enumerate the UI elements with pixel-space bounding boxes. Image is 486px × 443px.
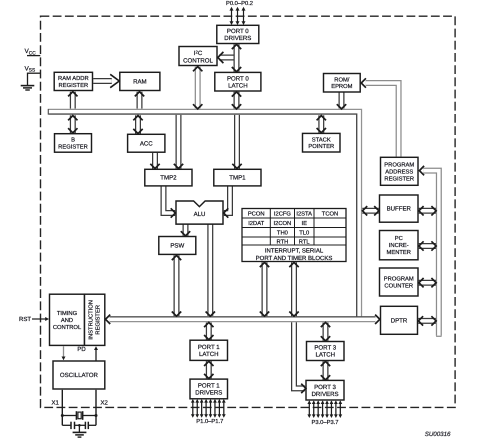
arrow: bus 1 to B REGISTER (double-headed) bbox=[70, 115, 76, 133]
svg-text:TH0: TH0 bbox=[277, 230, 288, 237]
junction dot at capacitor midpoint bbox=[78, 424, 81, 427]
svg-text:PORT 1LATCH: PORT 1LATCH bbox=[198, 344, 220, 358]
svg-text:PORT 3DRIVERS: PORT 3DRIVERS bbox=[311, 384, 338, 398]
svg-text:I2STA: I2STA bbox=[296, 211, 312, 218]
arrow: bus 2 to PORT 3 LATCH (double-headed) bbox=[323, 323, 329, 341]
svg-text:I2CON: I2CON bbox=[274, 220, 292, 227]
wire: bus 2 to PORT 3 DRIVERS (elbow) bbox=[294, 322, 305, 388]
svg-text:X2: X2 bbox=[101, 399, 109, 406]
svg-text:BUFFER: BUFFER bbox=[387, 206, 412, 213]
svg-text:PCON: PCON bbox=[248, 211, 265, 218]
svg-text:ALU: ALU bbox=[194, 211, 206, 218]
svg-text:TMP2: TMP2 bbox=[160, 175, 177, 182]
block: PC INCREMENTER bbox=[380, 231, 419, 260]
block: PROGRAM COUNTER bbox=[380, 268, 419, 296]
svg-text:I2C: I2C bbox=[194, 50, 203, 58]
block: PORT 1 DRIVERS bbox=[190, 379, 228, 399]
arrow: DPTR to right bus (double-headed) bbox=[418, 318, 436, 324]
block: I2C CONTROL U-I2C bbox=[179, 47, 217, 66]
wire: VCC to border bbox=[27, 55, 40, 57]
svg-text:PSW: PSW bbox=[170, 243, 184, 250]
wire: ALU to bus 2 bbox=[207, 225, 213, 316]
svg-text:RST: RST bbox=[19, 316, 31, 323]
svg-text:INTERRUPT, SERIAL: INTERRUPT, SERIAL bbox=[265, 248, 324, 255]
block: RAM ADDR REGISTER bbox=[54, 72, 92, 90]
wire: bus 1 to TMP2 bbox=[176, 115, 182, 169]
svg-text:PORT 1DRIVERS: PORT 1DRIVERS bbox=[195, 383, 222, 397]
svg-text:P0.0–P0.2: P0.0–P0.2 bbox=[226, 0, 253, 7]
wire: lower horizontal data bus 2 bbox=[110, 316, 376, 322]
arrow: BUFFER to left vertical bus (double-headed) bbox=[362, 208, 379, 214]
arrow: RAM to bus 1 bbox=[137, 92, 143, 109]
svg-text:TCON: TCON bbox=[322, 211, 338, 218]
svg-text:I2CFG: I2CFG bbox=[274, 211, 292, 218]
chip boundary (dashed border) bbox=[41, 16, 456, 407]
arrow: PROGRAM COUNTER to right bus (double-headed) bbox=[419, 280, 436, 286]
svg-text:PORT 3LATCH: PORT 3LATCH bbox=[314, 345, 336, 359]
svg-text:PORT AND TIMER BLOCKS: PORT AND TIMER BLOCKS bbox=[256, 255, 333, 262]
arrow: ROM/EPROM to bus 1 bbox=[339, 93, 345, 109]
svg-text:TMP1: TMP1 bbox=[229, 175, 246, 182]
arrow: bus 1 to STACK POINTER (double-headed) bbox=[318, 115, 324, 133]
block: TIMING AND CONTROL bbox=[50, 294, 85, 345]
wire: OSCILLATOR to INSTRUCTION REGISTER (PD) bbox=[95, 349, 97, 362]
arrow: BUFFER to right bus (double-headed) bbox=[419, 208, 436, 214]
svg-text:RAM: RAM bbox=[133, 79, 147, 86]
arrow: bus 1 to ACC (double-headed) bbox=[135, 115, 141, 134]
block: PROGRAM ADDRESS REGISTER bbox=[381, 157, 419, 185]
svg-text:IE: IE bbox=[301, 221, 307, 227]
capacitor C1 (left) bbox=[62, 424, 70, 426]
wire: bus 1 to TMP1 bbox=[234, 115, 240, 169]
wire: TIMING AND CONTROL to OSCILLATOR bbox=[63, 346, 65, 357]
arrow: I2C CONTROL to bus 1 (vertical, double-headed) bbox=[195, 67, 201, 109]
arrow: SFR block to bus 2 (right, double-headed) bbox=[291, 262, 297, 316]
svg-text:DPTR: DPTR bbox=[391, 317, 408, 324]
svg-text:PROGRAMADDRESSREGISTER: PROGRAMADDRESSREGISTER bbox=[384, 161, 414, 182]
wire: VSS to border and down to ground bbox=[28, 72, 41, 74]
wire: RST into TIMING AND CONTROL bbox=[32, 318, 47, 320]
svg-text:RTH: RTH bbox=[276, 239, 288, 245]
wire: ACC to TMP2 bbox=[152, 153, 158, 169]
block: OSCILLATOR bbox=[53, 361, 105, 389]
arrowhead: right bus into PROGRAM ADDRESS REGISTER bbox=[419, 166, 424, 175]
block: PORT 3 DRIVERS bbox=[306, 380, 344, 400]
ground symbol for VSS bbox=[21, 85, 35, 87]
svg-text:PORT 0LATCH: PORT 0LATCH bbox=[227, 75, 249, 89]
svg-text:P3.0–P3.7: P3.0–P3.7 bbox=[311, 419, 338, 426]
block: PORT 0 LATCH bbox=[215, 72, 261, 91]
arrow: PSW to bus 2 (double-headed) bbox=[174, 255, 180, 316]
block: RAM bbox=[120, 72, 160, 90]
svg-text:PORT 0DRIVERS: PORT 0DRIVERS bbox=[224, 28, 251, 42]
block: TMP2 bbox=[145, 169, 192, 186]
arrow: PORT 0 LATCH to bus 1 (double-headed) bbox=[234, 92, 240, 109]
block: ACC bbox=[128, 134, 165, 152]
wires: port 0 pin arrows bbox=[231, 8, 233, 23]
svg-text:OSCILLATOR: OSCILLATOR bbox=[60, 372, 99, 379]
block: INSTRUCTION REGISTER (rotated text) bbox=[85, 294, 105, 345]
junction dots on crystal wire bbox=[61, 414, 64, 417]
svg-text:ACC: ACC bbox=[140, 140, 153, 147]
block: ROM/EPROM bbox=[324, 74, 361, 93]
wire: right-hand vertical bus from PROGRAM ADDRESS REGISTER bbox=[423, 171, 439, 336]
svg-text:P1.0–P1.7: P1.0–P1.7 bbox=[196, 418, 223, 425]
svg-text:INSTRUCTION: INSTRUCTION bbox=[88, 300, 95, 340]
svg-text:PD: PD bbox=[77, 346, 86, 353]
arrow: port0 vertical link to I2C CONTROL (horizontal) bbox=[219, 55, 234, 61]
svg-text:REGISTER: REGISTER bbox=[95, 305, 102, 335]
capacitor C2 (right) bbox=[75, 424, 86, 426]
arrowhead: PAR line into ROM/EPROM bbox=[361, 78, 366, 87]
svg-text:SU00316: SU00316 bbox=[425, 431, 451, 438]
block: PORT 3 LATCH bbox=[307, 342, 345, 361]
wire: X2 crystal leg bbox=[95, 390, 97, 426]
svg-text:RTL: RTL bbox=[299, 239, 311, 245]
svg-text:STACKPOINTER: STACKPOINTER bbox=[308, 136, 334, 150]
arrow: PORT 1 LATCH to PORT 1 DRIVERS (double-headed) bbox=[206, 361, 212, 378]
wire: TMP2 to ALU (elbow) bbox=[164, 187, 176, 214]
svg-text:I2DAT: I2DAT bbox=[248, 220, 264, 227]
wires: port 1 pin arrows bbox=[192, 400, 194, 416]
arrow: RAM ADDR REGISTER to bus 1 bbox=[70, 92, 76, 109]
arrow: RAM ADDR REGISTER to RAM (horizontal) bbox=[93, 78, 112, 84]
SFR table: special function registers bbox=[242, 209, 346, 262]
arrowhead: bus2 into DPTR bbox=[375, 315, 380, 324]
wire: PROGRAM ADDRESS REGISTER to ROM/EPROM bbox=[366, 83, 399, 157]
wire: TMP1 to ALU (elbow) bbox=[224, 187, 230, 214]
block: DPTR bbox=[381, 306, 418, 334]
svg-text:CONTROL: CONTROL bbox=[183, 57, 213, 64]
arrow: SFR block to bus 2 (left, double-headed) bbox=[262, 262, 268, 316]
crystal Y1 bbox=[62, 415, 76, 417]
block: PORT 1 LATCH bbox=[190, 340, 228, 360]
block: PORT 0 DRIVERS bbox=[217, 25, 259, 43]
wires: port 3 pin arrows bbox=[308, 401, 310, 416]
block: BUFFER bbox=[380, 195, 419, 222]
ground symbol for crystal capacitors bbox=[78, 425, 80, 432]
wire: main horizontal bus 1 with right-hand turn down to bus 2 bbox=[49, 112, 360, 318]
arrow: ALU to PSW bbox=[183, 225, 189, 236]
arrowhead: bus2 into INSTRUCTION REGISTER bbox=[106, 315, 111, 324]
block: PSW bbox=[159, 237, 196, 255]
arrow: PC INCREMENTER to right bus (double-headed) bbox=[419, 243, 436, 249]
svg-text:RAM ADDRREGISTER: RAM ADDRREGISTER bbox=[58, 76, 89, 89]
block: STACK POINTER bbox=[303, 133, 341, 152]
block: B REGISTER bbox=[55, 134, 92, 153]
dark inner edge of bus path bbox=[49, 114, 357, 317]
arrowheads for block connections bbox=[68, 92, 77, 97]
arrow: bus 2 to PORT 1 LATCH (double-headed) bbox=[206, 323, 212, 340]
svg-text:TL0: TL0 bbox=[299, 230, 309, 237]
svg-text:PROGRAMCOUNTER: PROGRAMCOUNTER bbox=[384, 276, 414, 290]
svg-text:X1: X1 bbox=[51, 399, 59, 406]
arrow: PORT 3 LATCH to PORT 3 DRIVERS (double-headed) bbox=[323, 361, 329, 380]
block: TMP1 bbox=[214, 169, 261, 186]
block: ALU (with notch) bbox=[176, 201, 223, 224]
wire: X1 crystal leg bbox=[61, 390, 63, 426]
